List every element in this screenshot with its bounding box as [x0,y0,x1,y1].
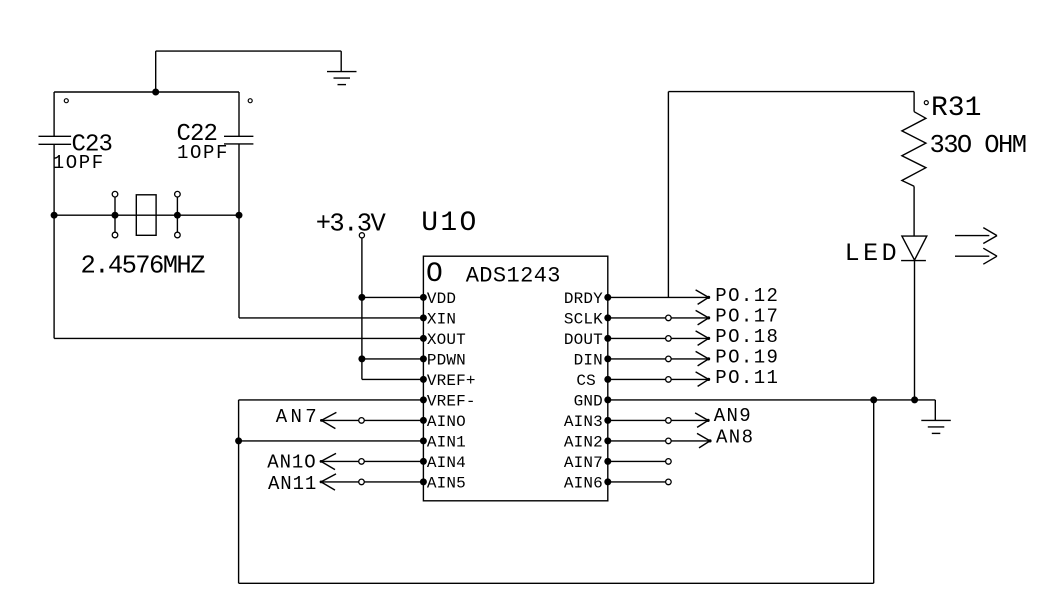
svg-text:AN7: AN7 [276,406,320,428]
svg-text:AIN7: AIN7 [564,454,603,472]
svg-text:PDWN: PDWN [427,351,466,369]
svg-text:LED: LED [845,239,901,268]
svg-text:AIN4: AIN4 [427,454,466,472]
svg-text:AN8: AN8 [716,427,754,449]
svg-text:PO.18: PO.18 [715,326,779,348]
svg-text:33O OHM: 33O OHM [930,131,1026,160]
svg-text:VREF-: VREF- [427,392,476,410]
svg-text:AIN3: AIN3 [564,413,603,431]
svg-text:GND: GND [574,392,603,410]
svg-text:O: O [426,259,443,290]
svg-text:VREF+: VREF+ [427,372,476,390]
svg-text:AIN6: AIN6 [564,474,603,492]
svg-text:AIN1: AIN1 [427,433,466,451]
svg-text:XIN: XIN [427,310,456,328]
svg-text:DOUT: DOUT [564,331,603,349]
svg-text:AIN2: AIN2 [564,433,603,451]
svg-text:PO.17: PO.17 [715,305,779,327]
svg-text:PO.19: PO.19 [715,346,779,368]
svg-text:PO.11: PO.11 [715,367,779,389]
svg-text:PO.12: PO.12 [715,285,779,307]
svg-text:VDD: VDD [427,290,456,308]
svg-text:1OPF: 1OPF [53,152,105,174]
svg-text:ADS1243: ADS1243 [466,264,561,289]
svg-text:DIN: DIN [574,351,603,369]
svg-text:AINO: AINO [427,413,466,431]
svg-text:U1O: U1O [421,208,478,239]
svg-text:AN11: AN11 [268,473,317,495]
svg-text:R31: R31 [931,93,981,124]
svg-text:AIN5: AIN5 [427,474,466,492]
svg-text:AN1O: AN1O [267,452,316,474]
svg-text:2.4576MHZ: 2.4576MHZ [81,252,206,281]
svg-text:AN9: AN9 [714,405,752,427]
svg-text:XOUT: XOUT [427,331,466,349]
svg-text:DRDY: DRDY [564,290,603,308]
svg-text:SCLK: SCLK [564,310,603,328]
svg-text:+3.3V: +3.3V [316,209,387,238]
svg-text:1OPF: 1OPF [177,142,229,164]
svg-text:CS: CS [576,372,596,390]
